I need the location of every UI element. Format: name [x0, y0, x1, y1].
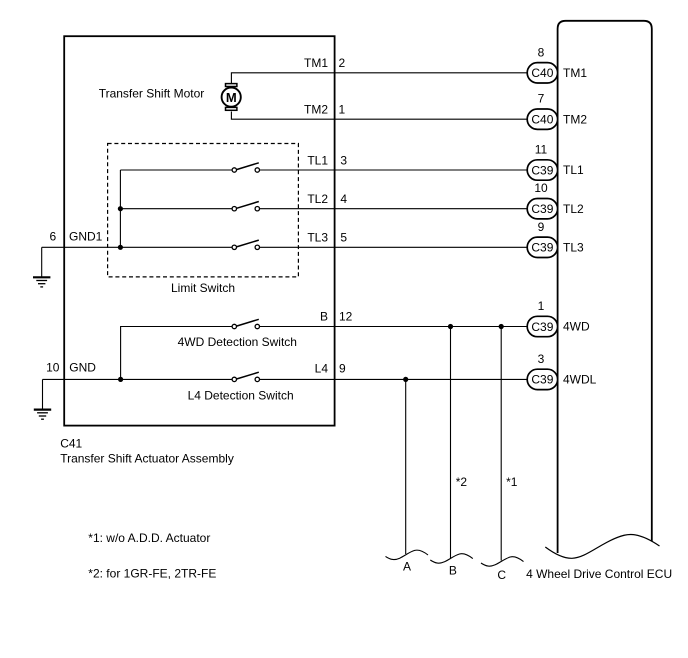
svg-text:3: 3 [340, 153, 347, 167]
connector pill C40 (TM2) [527, 109, 557, 129]
Transfer Shift Actuator Assembly box (C41) [64, 36, 334, 425]
svg-text:C39: C39 [531, 163, 553, 177]
ground symbol GND [34, 410, 51, 420]
svg-text:10: 10 [46, 361, 60, 375]
svg-text:7: 7 [538, 92, 545, 106]
wire TL3 / GND1: ground stub to ECU [42, 246, 528, 248]
svg-text:C39: C39 [531, 320, 553, 334]
connector pill C40 (TM1) [527, 63, 557, 83]
ground symbol GND1 [33, 277, 50, 287]
svg-text:TL1: TL1 [307, 153, 328, 167]
svg-text:C39: C39 [531, 241, 553, 255]
wire TM2: motor bottom to ECU pin 7 [231, 112, 527, 120]
svg-text:*2: *2 [456, 475, 468, 489]
svg-text:4WD: 4WD [563, 320, 590, 334]
wavy break on wire B [430, 554, 473, 563]
svg-text:B: B [449, 563, 457, 577]
svg-text:9: 9 [538, 220, 545, 234]
wire C (from 4WD line down) [500, 327, 502, 561]
wire TL1: bus to ECU [120, 169, 527, 171]
wire L4 / GND: ground stub through L4 switch to ECU [43, 378, 528, 380]
wire B (from 4WD line down) [450, 327, 452, 559]
svg-text:L4 Detection Switch: L4 Detection Switch [188, 389, 294, 403]
svg-text:3: 3 [538, 352, 545, 366]
svg-text:4 Wheel Drive Control ECU: 4 Wheel Drive Control ECU [526, 567, 672, 581]
switch 4WD detection: contacts and blade [232, 319, 259, 328]
svg-text:C39: C39 [531, 373, 553, 387]
svg-text:*2: for 1GR-FE, 2TR-FE: *2: for 1GR-FE, 2TR-FE [88, 566, 216, 580]
wire GND drop to ground [42, 379, 44, 409]
svg-text:*1: w/o A.D.D. Actuator: *1: w/o A.D.D. Actuator [88, 531, 210, 545]
svg-text:C41: C41 [60, 436, 82, 450]
wavy break on wire A [386, 550, 429, 559]
wire GND1 drop to ground [41, 247, 43, 277]
svg-text:GND: GND [69, 361, 96, 375]
svg-text:*1: *1 [506, 475, 518, 489]
svg-text:C40: C40 [531, 113, 553, 127]
svg-text:12: 12 [339, 310, 353, 324]
svg-text:TL3: TL3 [563, 241, 584, 255]
connector pill C39 (4WDL) [527, 369, 557, 389]
wire A (from 4WDL line down) [405, 379, 407, 554]
svg-text:TM1: TM1 [304, 56, 328, 70]
4 Wheel Drive Control ECU box [558, 21, 652, 553]
svg-text:4WDL: 4WDL [563, 373, 597, 387]
junction B on 4WD wire [448, 324, 453, 329]
wire TL2: bus to ECU [120, 208, 527, 210]
svg-text:2: 2 [339, 56, 346, 70]
svg-text:C39: C39 [531, 202, 553, 216]
svg-text:10: 10 [534, 181, 548, 195]
svg-text:8: 8 [538, 45, 545, 59]
Limit Switch dashed box [108, 144, 299, 277]
svg-text:11: 11 [535, 143, 548, 157]
switch L4 detection: contacts and blade [232, 372, 259, 381]
wire 4WD: riser from GND junction then to ECU [121, 327, 528, 380]
svg-text:1: 1 [339, 103, 346, 117]
ECU torn bottom edge [545, 534, 659, 558]
svg-text:C: C [497, 568, 506, 582]
connector pill C39 (TL1) [527, 160, 557, 180]
switch TL1: contacts and blade [232, 163, 259, 172]
junction bus/TL3-GND1 [118, 245, 123, 250]
wire TM1: motor top to ECU pin 8 [231, 73, 527, 83]
wavy break on wire C [481, 557, 524, 566]
connector pill C39 (4WD) [527, 316, 557, 336]
svg-text:TL2: TL2 [307, 192, 328, 206]
svg-text:TL3: TL3 [307, 231, 328, 245]
svg-text:6: 6 [49, 230, 56, 244]
svg-text:TL2: TL2 [563, 202, 584, 216]
limit switch bus wire (vertical) [119, 170, 121, 247]
svg-text:B: B [320, 310, 328, 324]
svg-text:TM1: TM1 [563, 66, 587, 80]
connector pill C39 (TL3) [527, 237, 557, 257]
connector pill C39 (TL2) [527, 199, 557, 219]
svg-text:5: 5 [340, 231, 347, 245]
svg-text:TM2: TM2 [563, 112, 587, 126]
junction A on 4WDL wire [403, 377, 408, 382]
svg-text:9: 9 [339, 362, 346, 376]
svg-text:TL1: TL1 [563, 163, 584, 177]
junction C on 4WD wire [499, 324, 504, 329]
switch TL3: contacts and blade [232, 240, 259, 249]
motor M: Transfer Shift Motor [222, 84, 241, 111]
svg-text:4WD Detection Switch: 4WD Detection Switch [178, 335, 297, 349]
switch TL2: contacts and blade [232, 202, 259, 211]
svg-text:Transfer Shift Actuator Assemb: Transfer Shift Actuator Assembly [60, 452, 234, 466]
svg-text:A: A [403, 560, 411, 574]
svg-text:4: 4 [340, 192, 347, 206]
junction GND/4WD riser [118, 377, 123, 382]
svg-text:M: M [226, 90, 237, 105]
junction bus/TL2 [118, 206, 123, 211]
svg-text:L4: L4 [315, 362, 329, 376]
svg-text:Transfer Shift Motor: Transfer Shift Motor [99, 86, 205, 100]
svg-text:Limit Switch: Limit Switch [171, 281, 235, 295]
svg-text:C40: C40 [531, 66, 553, 80]
svg-text:TM2: TM2 [304, 103, 328, 117]
svg-text:GND1: GND1 [69, 230, 103, 244]
svg-text:1: 1 [538, 299, 545, 313]
